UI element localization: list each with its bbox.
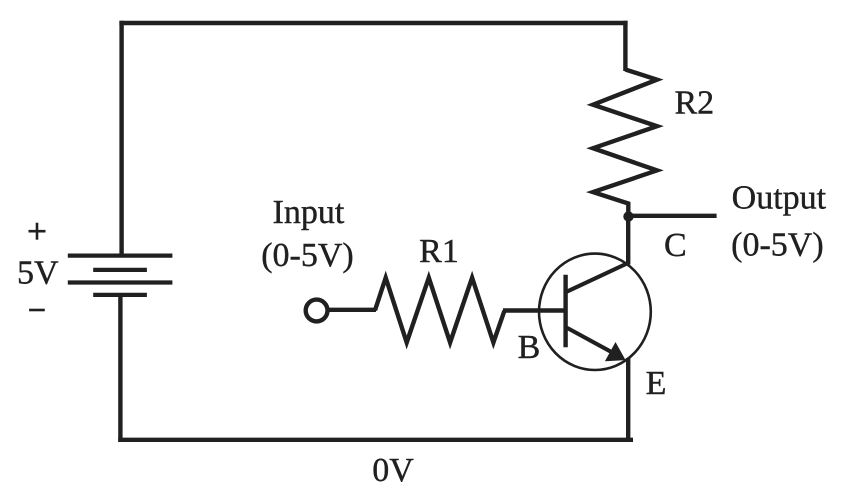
wire: right rail upper (top-right corner down to R2) xyxy=(623,21,627,71)
wire: emitter vertical down to bottom rail xyxy=(626,358,630,440)
transistor Q1 emitter arrowhead xyxy=(605,342,626,361)
wire: left rail lower (battery - plate down to bottom rail) xyxy=(118,295,122,442)
battery BT1 xyxy=(68,256,173,295)
svg-text:Output: Output xyxy=(732,179,827,216)
svg-text:E: E xyxy=(646,365,667,402)
svg-text:0V: 0V xyxy=(372,452,414,489)
input terminal circle xyxy=(306,300,328,322)
wire: input terminal to R1 xyxy=(328,308,376,312)
svg-text:5V: 5V xyxy=(17,255,59,292)
svg-text:C: C xyxy=(664,227,687,264)
wire: bottom rail (0V) xyxy=(118,438,633,442)
resistor R2 xyxy=(593,70,657,218)
svg-text:B: B xyxy=(518,329,541,366)
wire: collector vertical xyxy=(626,214,630,265)
battery - symbol xyxy=(29,309,45,312)
wire: output stub from node C xyxy=(629,214,717,218)
transistor Q1 collector diagonal xyxy=(565,262,630,292)
wire: R1 to base xyxy=(503,308,567,312)
svg-text:(0-5V): (0-5V) xyxy=(731,227,824,264)
svg-text:R1: R1 xyxy=(419,233,459,270)
svg-text:(0-5V): (0-5V) xyxy=(261,237,354,274)
wire: top rail xyxy=(119,21,627,25)
battery + symbol xyxy=(29,223,46,240)
wire: left rail upper (top-left corner down to battery + plate) xyxy=(119,21,123,256)
svg-text:Input: Input xyxy=(273,194,345,231)
resistor R1 xyxy=(375,278,504,343)
node C junction dot xyxy=(623,211,633,221)
transistor Q1 base bar xyxy=(563,275,567,348)
transistor Q1 emitter diagonal xyxy=(566,327,613,352)
svg-text:R2: R2 xyxy=(674,85,714,122)
transistor Q1 circle xyxy=(539,254,651,370)
